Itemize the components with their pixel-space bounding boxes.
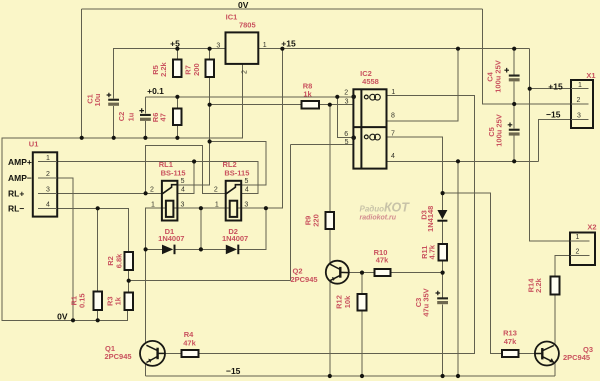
wire C3 bottom lead	[442, 305, 444, 376]
svg-text:0V: 0V	[238, 0, 249, 10]
wire R3 top lead	[128, 281, 130, 293]
wire AMP+ line U1 pin1 to relay contacts	[57, 162, 258, 194]
wire R2 bottom lead	[128, 270, 130, 281]
svg-text:1N4148: 1N4148	[426, 206, 435, 232]
svg-text:R4: R4	[184, 330, 194, 339]
IC2 pin numbers	[344, 89, 395, 160]
relay RL2 BS-115 body	[226, 181, 242, 221]
svg-text:4: 4	[46, 202, 50, 209]
svg-text:100u 25V: 100u 25V	[494, 60, 503, 93]
svg-text:1: 1	[263, 42, 267, 49]
wire R14 bottom to Q3 collector	[554, 295, 556, 345]
wire Q3 emitter lead	[554, 362, 556, 376]
svg-text:6: 6	[344, 131, 348, 138]
svg-text:200: 200	[192, 63, 201, 76]
resistor R13	[502, 350, 519, 357]
resistor R8	[302, 101, 319, 109]
transistor Q2	[326, 261, 349, 284]
wire +0.1 line C2 to IC2 pin2	[145, 96, 353, 98]
svg-text:1: 1	[151, 201, 155, 208]
svg-text:2: 2	[214, 187, 218, 194]
diode D2 1N4007	[226, 245, 239, 255]
wire 0V top rail	[82, 8, 483, 10]
wire -15 riser to bottom rail	[457, 161, 459, 376]
svg-text:AMP−: AMP−	[8, 173, 32, 183]
resistor R5	[173, 60, 182, 77]
svg-text:BS-115: BS-115	[224, 168, 249, 177]
transistor Q1	[140, 341, 165, 366]
svg-text:4.7k: 4.7k	[427, 244, 436, 259]
wire riser coil junction to diode line	[200, 208, 202, 249]
svg-text:47k: 47k	[504, 337, 517, 346]
svg-text:2: 2	[46, 171, 50, 178]
resistor R9	[326, 212, 335, 229]
svg-text:3: 3	[181, 202, 185, 209]
svg-text:X2: X2	[587, 223, 596, 232]
wire R13 right lead to Q3 base	[518, 352, 535, 354]
wire R10 right lead	[391, 272, 443, 274]
svg-text:+15: +15	[281, 39, 296, 49]
resistor R14	[551, 276, 560, 294]
wire C4 bottom to 0V line	[513, 81, 515, 104]
connector X2 box	[570, 233, 595, 266]
wire IC2 pin7 to D3	[387, 137, 443, 210]
wire R12 top lead	[361, 273, 363, 294]
svg-text:2.2k: 2.2k	[534, 277, 543, 292]
svg-text:0.15: 0.15	[77, 293, 86, 308]
capacitor C2 1u	[139, 108, 150, 121]
RL1 pin numbers	[150, 178, 185, 208]
wire RL+ link to RL2 pin2	[146, 146, 226, 194]
wire C2 top lead	[144, 97, 146, 114]
resistor R10	[374, 269, 390, 276]
svg-text:10k: 10k	[343, 295, 352, 308]
wire X1 pin1 feed	[530, 88, 571, 90]
svg-text:47k: 47k	[376, 256, 389, 265]
wire pin7 branch to R13 and Q3 base	[443, 193, 502, 353]
svg-text:0V: 0V	[57, 312, 68, 322]
svg-text:BS-115: BS-115	[161, 168, 186, 177]
wire RL- U1 pin4 to R2	[57, 208, 129, 252]
svg-text:RL−: RL−	[8, 204, 24, 214]
wire -15 bottom rail	[146, 375, 555, 377]
svg-text:2: 2	[242, 70, 249, 74]
svg-text:7: 7	[391, 130, 395, 137]
wire R5 top lead	[176, 49, 178, 60]
wire AMP- U1 pin2 to 0V	[57, 178, 73, 320]
svg-text:220: 220	[312, 214, 321, 227]
wire Q1 base to R4	[165, 352, 181, 354]
resistor R11	[438, 244, 447, 260]
capacitor C5 100u 25V	[508, 123, 520, 136]
wire R2/R3 divider line	[129, 280, 291, 282]
svg-text:4: 4	[245, 187, 249, 194]
U1 pin numbers	[46, 155, 50, 209]
svg-text:U1: U1	[29, 139, 39, 148]
regulator IC1 7805 box	[226, 32, 259, 64]
svg-text:+0.1: +0.1	[147, 86, 164, 96]
wire R7 net to RL2 pin5	[210, 142, 266, 185]
wire D1 cathode lead	[175, 248, 226, 250]
svg-text:8: 8	[391, 112, 395, 119]
wire +15 rail from IC1	[258, 48, 529, 50]
svg-text:RL+: RL+	[8, 188, 24, 198]
wire X2 pin2 to R14	[555, 255, 570, 276]
wire +5 rail to C1	[114, 49, 226, 99]
svg-text:+5: +5	[170, 39, 180, 49]
svg-text:100u 25V: 100u 25V	[495, 114, 504, 147]
resistor R12	[358, 294, 367, 310]
diode D1 1N4007	[162, 245, 175, 255]
svg-text:7805: 7805	[239, 20, 256, 29]
X2 pin numbers	[576, 234, 580, 256]
wire D2 cathode to RL2 pin3 line	[239, 208, 266, 249]
relay RL1 BS-115 body	[162, 181, 178, 221]
resistor R7	[205, 60, 214, 77]
wire pin5 riser to divider line	[290, 145, 292, 281]
wire RL+ U1 pin3 to RL1 pin2	[57, 192, 162, 194]
node junction dots	[71, 47, 532, 379]
wire R6 bottom lead	[176, 125, 178, 138]
svg-text:2.2k: 2.2k	[159, 61, 168, 76]
wire R7 top lead	[209, 49, 211, 60]
wire +0.1 branch to IC2 pin6	[337, 97, 353, 138]
connector X1 box	[571, 80, 593, 128]
svg-text:4558: 4558	[362, 77, 379, 86]
svg-text:5: 5	[181, 178, 185, 185]
svg-text:1: 1	[391, 89, 395, 96]
svg-text:AMP+: AMP+	[8, 157, 32, 167]
X1 pin numbers	[577, 82, 583, 120]
resistor R2	[124, 252, 133, 270]
svg-text:1: 1	[215, 201, 219, 208]
diode D3 1N4148	[437, 210, 447, 221]
resistor R6	[173, 109, 182, 125]
svg-text:5: 5	[244, 178, 248, 185]
svg-text:10u: 10u	[93, 93, 102, 106]
svg-text:X1: X1	[586, 71, 595, 80]
wire +15 to IC2 pin8	[387, 49, 459, 121]
capacitor C4 100u 25V	[504, 68, 519, 81]
wire 0V right riser to X1 pin2	[483, 9, 572, 104]
wire IC2 pin5 line	[291, 144, 354, 146]
svg-text:1k: 1k	[114, 296, 123, 305]
wire C2 bottom lead	[144, 121, 146, 138]
wire Q1 emitter lead	[145, 364, 147, 376]
capacitor C1 10u	[107, 93, 119, 106]
transistor Q3	[535, 342, 559, 366]
svg-text:−15: −15	[546, 110, 561, 120]
svg-text:3: 3	[577, 113, 581, 120]
svg-text:2PC945: 2PC945	[563, 353, 590, 362]
svg-text:−15: −15	[226, 366, 241, 376]
wire R9 top lead	[329, 105, 331, 212]
svg-text:radiokot.ru: radiokot.ru	[360, 214, 397, 221]
wire RL1 pin1 to Q1 collector riser	[146, 208, 166, 343]
wire +15 riser to X2 pin1	[530, 49, 570, 241]
U1 signal labels	[8, 157, 32, 214]
svg-text:4: 4	[391, 153, 395, 160]
wire R9 bottom lead to Q2 collector	[329, 229, 331, 263]
svg-text:3: 3	[244, 202, 248, 209]
svg-text:5: 5	[345, 139, 349, 146]
svg-text:2PC945: 2PC945	[290, 275, 317, 284]
svg-text:1: 1	[46, 155, 50, 162]
svg-text:1u: 1u	[127, 112, 136, 121]
svg-text:3: 3	[216, 42, 220, 49]
op-amp IC2 4558 box	[351, 89, 386, 168]
wire R7 to R8 left lead	[210, 104, 302, 106]
svg-text:2: 2	[576, 249, 580, 256]
IC1 pin numbers	[216, 42, 266, 74]
wire R6 top lead	[176, 97, 178, 109]
svg-text:47u 35V: 47u 35V	[422, 288, 431, 316]
svg-text:1k: 1k	[303, 89, 312, 98]
resistor R3	[124, 292, 133, 310]
svg-text:3: 3	[345, 98, 349, 105]
wire R8 right lead to IC2 pin3	[319, 104, 354, 106]
wire AMP+ branch to RL1 pin4	[177, 162, 194, 194]
svg-text:C2: C2	[117, 112, 126, 122]
svg-text:1N4007: 1N4007	[222, 234, 248, 243]
svg-text:2: 2	[577, 97, 581, 104]
wire C4 top lead	[513, 49, 515, 75]
wire +15 drop to relay coils	[237, 49, 282, 209]
connector U1 box	[33, 152, 57, 216]
wire Q2 emitter lead	[329, 281, 331, 376]
wire RL1 pin3 to RL2 pin1	[173, 207, 229, 209]
svg-text:47k: 47k	[183, 339, 196, 348]
wire C5 bottom to -15 line	[513, 136, 515, 162]
wire 0V mid bus with IC1 gnd lead, left edge and bottom	[2, 64, 242, 320]
wire D3 cathode to R11	[442, 221, 444, 244]
svg-text:IC1: IC1	[226, 13, 238, 22]
wire C1 bottom lead	[113, 106, 115, 138]
wire R1 top lead	[97, 208, 99, 291]
wire R12 bottom lead	[361, 310, 363, 376]
svg-text:4: 4	[181, 187, 185, 194]
svg-text:3: 3	[46, 187, 50, 194]
wire IC2 pin4 -15 line	[387, 160, 539, 162]
svg-text:6.8k: 6.8k	[114, 253, 123, 268]
RL2 pin numbers	[214, 178, 249, 208]
wire R7 bottom lead down to RL1 pin5	[177, 77, 209, 185]
svg-text:2PC945: 2PC945	[104, 352, 131, 361]
wire R11 bottom to C3	[442, 260, 444, 297]
wire D1 anode lead	[146, 248, 162, 250]
wire R4 to IC2 pin1 mute line	[198, 96, 474, 354]
capacitor C3 47u 35V	[436, 291, 449, 305]
svg-text:2: 2	[150, 187, 154, 194]
svg-text:1N4007: 1N4007	[158, 234, 184, 243]
svg-text:1: 1	[576, 234, 580, 241]
resistor R1	[93, 292, 102, 311]
svg-text:2: 2	[344, 89, 348, 96]
svg-text:+15: +15	[548, 82, 563, 92]
wire -15 to X1 pin3	[539, 120, 571, 162]
svg-text:1: 1	[578, 82, 582, 89]
wire C5 top lead	[513, 104, 515, 129]
wire Q2 base to R10	[349, 272, 375, 274]
svg-text:47: 47	[158, 113, 167, 121]
resistor R4	[181, 350, 198, 357]
wire 0V left riser	[81, 9, 83, 138]
wire R1 bottom lead	[97, 310, 99, 320]
